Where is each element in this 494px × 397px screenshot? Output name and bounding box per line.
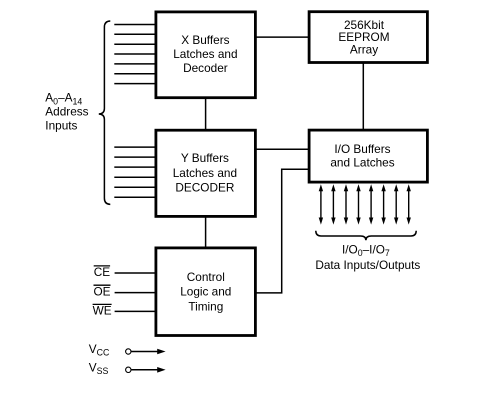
wire address input 12 to Y buffers: [114, 186, 156, 188]
svg-text:Inputs: Inputs: [45, 119, 77, 133]
wire address input 4 to X buffers: [114, 53, 156, 55]
block U1 X Buffers Latches and Decoder: [156, 12, 256, 98]
svg-text:Timing: Timing: [188, 299, 223, 313]
svg-text:Control: Control: [187, 270, 225, 284]
block U2 256Kbit EEPROM Array: [309, 12, 427, 63]
wire address input 7 to X buffers: [114, 83, 156, 85]
wire control logic to I/O buffers: [255, 169, 310, 293]
label VCC with terminal and arrow: [89, 342, 166, 358]
svg-text:WE: WE: [93, 304, 112, 318]
wire Y buffers to control logic: [205, 216, 207, 249]
svg-text:Decoder: Decoder: [183, 61, 228, 75]
svg-text:I/O Buffers: I/O Buffers: [334, 142, 390, 156]
wire address input 1 to X buffers: [114, 24, 156, 26]
label CE: [94, 265, 111, 279]
wire I/O3 arrow: [356, 184, 360, 224]
label OE: [94, 284, 111, 298]
wire I/O4 arrow: [369, 184, 373, 224]
label I/O0-I/O7 Data Inputs/Outputs: [315, 243, 420, 273]
svg-text:Array: Array: [350, 42, 378, 56]
wire X buffers to Y buffers: [205, 97, 207, 131]
svg-text:Logic and: Logic and: [180, 285, 231, 299]
brace I/O data bus: [316, 231, 416, 240]
wire address input 2 to X buffers: [114, 33, 156, 35]
wire address input 8 to Y buffers: [114, 146, 156, 148]
wire address input 11 to Y buffers: [114, 176, 156, 178]
block U3 Y Buffers Latches and DECODER: [156, 130, 256, 216]
wire I/O2 arrow: [344, 184, 348, 224]
svg-text:CE: CE: [94, 265, 111, 279]
svg-text:and Latches: and Latches: [330, 156, 394, 170]
label WE: [93, 304, 112, 318]
svg-text:Latches and: Latches and: [173, 166, 237, 180]
wire I/O7 arrow: [407, 184, 411, 224]
wire address input 5 to X buffers: [114, 63, 156, 65]
wire I/O6 arrow: [394, 184, 398, 224]
svg-text:Data Inputs/Outputs: Data Inputs/Outputs: [315, 258, 420, 272]
wire address input 13 to Y buffers: [114, 196, 156, 198]
wire CE input: [115, 272, 156, 274]
wire address input 9 to Y buffers: [114, 156, 156, 158]
svg-text:I/O0–I/O7: I/O0–I/O7: [342, 243, 390, 259]
wire I/O1 arrow: [331, 184, 335, 224]
wire I/O0 arrow: [319, 184, 323, 224]
svg-text:Latches and: Latches and: [173, 47, 237, 61]
svg-text:X Buffers: X Buffers: [181, 33, 229, 47]
svg-text:Y Buffers: Y Buffers: [181, 151, 229, 165]
wire Y buffers to I/O buffers: [255, 148, 310, 150]
wire OE input: [115, 292, 156, 294]
svg-text:OE: OE: [94, 284, 111, 298]
block U4 I/O Buffers and Latches: [309, 130, 427, 182]
wire address input 10 to Y buffers: [114, 166, 156, 168]
label A0-A14 Address Inputs: [45, 90, 88, 132]
wire X buffers to EEPROM array: [255, 36, 310, 38]
wire WE input: [115, 310, 156, 312]
block U5 Control Logic and Timing: [156, 248, 256, 336]
label VSS with terminal and arrow: [89, 360, 166, 376]
wire address input 6 to X buffers: [114, 73, 156, 75]
wire EEPROM array to I/O buffers: [362, 62, 364, 131]
svg-text:Address: Address: [45, 105, 88, 119]
svg-text:DECODER: DECODER: [175, 181, 234, 195]
brace address inputs: [99, 21, 111, 204]
wire address input 3 to X buffers: [114, 43, 156, 45]
I/O data arrows (8 bidirectional): [319, 184, 411, 224]
wire I/O5 arrow: [381, 184, 385, 224]
